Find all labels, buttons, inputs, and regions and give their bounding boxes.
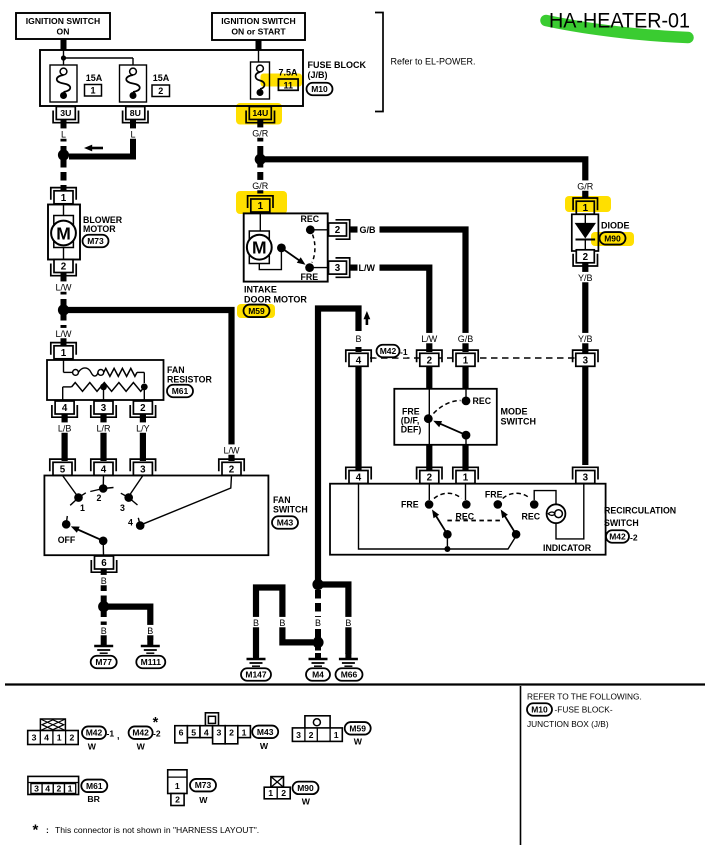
svg-text:Y/B: Y/B xyxy=(578,273,593,283)
connector face M42 bowtie xyxy=(40,719,65,731)
wire L/W: blower motor pin 2 down to junction and fan resistor pin 1 xyxy=(61,273,67,345)
wire label B above M42 row xyxy=(354,333,363,344)
svg-text:RECIRCULATION: RECIRCULATION xyxy=(604,506,676,516)
fan switch pin 2 connector xyxy=(219,459,244,475)
wire label L/W at intake pin 3 xyxy=(359,263,376,273)
wire label L/B xyxy=(55,422,75,433)
svg-text:M43: M43 xyxy=(257,727,274,737)
recirculation switch left unit FRE contact xyxy=(425,484,434,509)
svg-text:L/W: L/W xyxy=(223,445,240,455)
svg-text:FAN: FAN xyxy=(273,495,291,505)
svg-text:B: B xyxy=(101,626,107,636)
wire label B on M147 leg xyxy=(252,617,261,628)
svg-text:2: 2 xyxy=(158,86,163,96)
recirculation switch left unit dashed throw arc xyxy=(434,493,462,498)
svg-text:DEF): DEF) xyxy=(401,425,422,435)
blower motor M73 body xyxy=(48,205,80,260)
svg-text:-2: -2 xyxy=(153,729,161,739)
wire: fuse block internal feed to fuse 1 and fuse 2 xyxy=(61,50,133,65)
svg-text:5: 5 xyxy=(191,727,196,737)
svg-text:SWITCH: SWITCH xyxy=(501,417,537,427)
svg-text:1: 1 xyxy=(90,86,95,96)
fan resistor M61 box xyxy=(47,360,164,400)
svg-text:M147: M147 xyxy=(245,669,267,679)
connector face M90 cells 1 2 xyxy=(264,787,290,799)
svg-text:8U: 8U xyxy=(130,108,141,118)
mode switch common contact and wiper arrow xyxy=(433,421,470,445)
svg-text:3: 3 xyxy=(101,403,107,414)
svg-text:W: W xyxy=(199,795,208,805)
svg-text:MOTOR: MOTOR xyxy=(83,224,116,234)
svg-text:1: 1 xyxy=(80,503,85,513)
svg-text:2: 2 xyxy=(583,252,589,263)
svg-text:2: 2 xyxy=(427,473,433,484)
wire label Y/B above M42 row xyxy=(575,333,595,344)
wire label L/W above M42 row xyxy=(419,333,439,344)
svg-text:M: M xyxy=(56,224,71,244)
wire: ignition switch ON to fuse block xyxy=(61,39,67,50)
svg-text:G/R: G/R xyxy=(252,181,269,191)
wire label B above ground M77 xyxy=(99,625,108,636)
junction node top of ground group xyxy=(312,579,323,590)
svg-text:2: 2 xyxy=(69,733,74,743)
svg-text:1: 1 xyxy=(334,730,339,740)
svg-text:2: 2 xyxy=(140,403,146,414)
svg-text:SWITCH: SWITCH xyxy=(604,518,639,528)
recirculation switch pin 3 connector xyxy=(573,467,598,483)
svg-text:1: 1 xyxy=(175,781,180,791)
wire B: junction right to ground M111 xyxy=(106,607,150,640)
M42-1 connector pin 2 xyxy=(417,350,442,366)
recirculation switch pin 4 internal rail xyxy=(359,484,517,552)
svg-text:M43: M43 xyxy=(277,517,294,527)
fuse block (J/B) outline xyxy=(40,50,303,106)
connector 8U xyxy=(123,107,148,123)
svg-text:REC: REC xyxy=(473,396,492,406)
svg-text:M10: M10 xyxy=(531,704,548,714)
fan resistor internal circuit xyxy=(63,360,148,400)
svg-text:IGNITION SWITCH: IGNITION SWITCH xyxy=(26,16,100,26)
intake door motor body xyxy=(244,213,328,281)
label FRE right unit xyxy=(485,490,503,500)
yellow highlight on M59 oval xyxy=(237,304,275,318)
label FRE left unit xyxy=(401,500,419,510)
svg-text:B: B xyxy=(315,618,321,628)
svg-text:M73: M73 xyxy=(87,236,104,246)
wire label G/B above M42 row xyxy=(456,333,476,344)
vertical divider of reference panel xyxy=(520,686,522,845)
svg-text:1: 1 xyxy=(463,355,469,366)
wire L/R: fan resistor pin 3 to fan switch pin 4 xyxy=(100,415,106,462)
label REC in mode switch xyxy=(473,396,492,406)
svg-text:3: 3 xyxy=(34,783,39,793)
svg-text:JUNCTION BOX (J/B): JUNCTION BOX (J/B) xyxy=(527,719,609,729)
label INDICATOR xyxy=(543,543,592,553)
diode pin 2 connector xyxy=(573,250,597,266)
reference M73 oval xyxy=(83,235,109,248)
svg-text:FAN: FAN xyxy=(167,365,185,375)
svg-text:W: W xyxy=(302,797,311,807)
label FRE in intake door motor xyxy=(301,272,319,282)
svg-text:4: 4 xyxy=(62,403,68,414)
svg-text:3: 3 xyxy=(335,263,341,274)
reference M4 oval xyxy=(306,668,330,681)
wire: fuse block internal feed to fuse 11 xyxy=(258,50,260,62)
svg-text:2: 2 xyxy=(61,262,67,273)
separator rule above connector legend xyxy=(5,683,705,685)
svg-text:M59: M59 xyxy=(349,723,366,733)
footnote harness layout xyxy=(33,822,260,839)
label REC left unit xyxy=(456,512,475,522)
mode switch box xyxy=(394,389,497,445)
wire L: connector 3U down to junction and blower motor pin 1 xyxy=(61,120,67,192)
svg-text:,: , xyxy=(117,731,120,741)
svg-text:M42: M42 xyxy=(132,728,149,738)
svg-text:M90: M90 xyxy=(297,783,314,793)
wire B: M42-1 pin 4 down to recirculation switch xyxy=(355,367,361,472)
svg-text:-2: -2 xyxy=(630,533,638,543)
lower junction node xyxy=(312,637,323,648)
label DIODE xyxy=(601,221,630,231)
recirculation switch left unit common and wiper arrow xyxy=(432,510,452,547)
intake door motor common contact and wiper arrow xyxy=(277,244,306,265)
yellow highlight on fuse 11 label xyxy=(261,74,303,87)
wire L: connector 8U down, left to junction xyxy=(69,120,133,157)
yellow highlight on diode pin 1 xyxy=(565,196,611,212)
title HA-HEATER-01 xyxy=(549,9,690,33)
ground M77 xyxy=(94,640,113,656)
reference M59 oval in legend xyxy=(345,722,371,735)
connector face M42 cells 3 4 1 2 xyxy=(28,731,78,745)
connector face M61 cells 3 4 2 1 xyxy=(28,776,79,794)
yellow highlight on M90 oval xyxy=(591,232,634,246)
wire label B on M4 line xyxy=(314,617,323,628)
connector 14U xyxy=(246,107,274,123)
svg-text:1: 1 xyxy=(242,727,247,737)
svg-text:4: 4 xyxy=(128,518,133,528)
svg-text:M42: M42 xyxy=(609,531,626,541)
svg-text:B: B xyxy=(345,618,351,628)
yellow highlight on intake door motor pin 1 xyxy=(236,191,287,214)
reference M77 oval xyxy=(91,656,117,669)
fan switch pin 6 connector xyxy=(91,556,116,572)
svg-text:M66: M66 xyxy=(341,669,358,679)
junction node on L wire xyxy=(58,149,69,160)
svg-text:B: B xyxy=(147,626,153,636)
svg-text:FRE: FRE xyxy=(401,500,419,510)
svg-text:2: 2 xyxy=(229,464,235,475)
svg-text:-FUSE BLOCK-: -FUSE BLOCK- xyxy=(555,705,613,715)
junction node on B wire xyxy=(98,601,109,612)
reference M147 oval xyxy=(241,668,271,681)
svg-text:W: W xyxy=(137,742,146,752)
wire G/R: connector 14U down to junction and intake door motor pin 1 xyxy=(257,120,263,198)
svg-text:4: 4 xyxy=(356,355,362,366)
wire L/B: fan resistor pin 4 to fan switch pin 5 xyxy=(61,415,67,462)
ground M66 xyxy=(339,653,358,669)
svg-text:3: 3 xyxy=(32,733,37,743)
diode M90 body xyxy=(572,214,599,251)
recirculation switch pin 4 connector xyxy=(346,467,371,483)
svg-text:REC: REC xyxy=(522,512,541,522)
svg-text:3: 3 xyxy=(120,503,125,513)
reference M66 oval xyxy=(336,668,363,681)
svg-text:1: 1 xyxy=(61,193,67,204)
reference M59 oval xyxy=(244,305,270,318)
svg-text:BR: BR xyxy=(87,794,100,804)
M42-1 connector pin 3 xyxy=(573,350,598,366)
svg-text:4: 4 xyxy=(204,727,209,737)
wire label L/W above fan switch pin 2 xyxy=(222,444,242,455)
reference M61 oval in legend xyxy=(81,780,107,793)
svg-text:1: 1 xyxy=(57,733,62,743)
fuse 1 15A xyxy=(50,65,103,102)
svg-text:FUSE BLOCK: FUSE BLOCK xyxy=(308,60,367,70)
svg-text:L/B: L/B xyxy=(58,423,72,433)
svg-text:B: B xyxy=(355,334,361,344)
indicator lamp circuit xyxy=(534,484,584,539)
fan switch common contact and wiper arrow xyxy=(71,526,108,555)
svg-text:3: 3 xyxy=(140,464,146,475)
svg-text:1: 1 xyxy=(61,348,67,359)
fan switch pin 4 connector xyxy=(91,459,116,475)
wire B: fan switch pin 6 down to junction and ground M77 xyxy=(101,570,107,641)
svg-text:M42: M42 xyxy=(380,346,397,356)
diode pin 1 connector xyxy=(573,198,597,214)
wire label B below fan switch xyxy=(99,575,108,586)
svg-text:W: W xyxy=(260,741,269,751)
svg-text:INDICATOR: INDICATOR xyxy=(543,543,592,553)
connector face M59 cells 3 2 1 xyxy=(292,728,342,742)
svg-text:L/W: L/W xyxy=(55,329,72,339)
recirculation switch right unit common and wiper arrow xyxy=(501,510,521,539)
svg-text:REC: REC xyxy=(301,214,320,224)
wire label G/R above intake door motor xyxy=(250,180,270,191)
wire L/W: intake pin 3 to mode switch xyxy=(351,268,430,352)
svg-text:*: * xyxy=(33,822,39,839)
svg-text:-1: -1 xyxy=(400,347,408,357)
svg-text:M: M xyxy=(252,238,267,258)
wire label L/R xyxy=(94,422,114,433)
svg-text:L: L xyxy=(130,129,135,139)
intake door motor pin 1 connector xyxy=(248,196,273,212)
svg-text:2: 2 xyxy=(175,795,180,805)
reference M43 oval in legend xyxy=(252,726,278,739)
svg-text:INTAKE: INTAKE xyxy=(244,285,277,295)
svg-text:1: 1 xyxy=(268,788,273,798)
svg-text:FRE: FRE xyxy=(301,272,319,282)
svg-text:B: B xyxy=(279,618,285,628)
wire label L under 8U xyxy=(129,128,138,139)
label REC in intake door motor xyxy=(301,214,320,224)
wire label B on M66 leg xyxy=(344,617,353,628)
blower motor pin 2 connector xyxy=(51,260,76,276)
svg-text:(J/B): (J/B) xyxy=(308,70,328,80)
svg-text:M111: M111 xyxy=(141,657,162,667)
svg-text:M4: M4 xyxy=(312,669,324,679)
svg-text:M61: M61 xyxy=(172,386,189,396)
fuse 11 7.5A xyxy=(251,62,299,99)
recirculation switch right unit REC contact xyxy=(530,500,539,509)
svg-text:6: 6 xyxy=(179,727,184,737)
svg-text:M73: M73 xyxy=(195,780,212,790)
svg-text:M61: M61 xyxy=(86,781,103,791)
recirculation switch M42-2 box xyxy=(330,484,606,555)
svg-text:RESISTOR: RESISTOR xyxy=(167,375,212,385)
svg-text:DIODE: DIODE xyxy=(601,221,630,231)
reference M90 oval xyxy=(600,232,626,245)
wire label L/W below blower xyxy=(54,281,74,292)
wire label L under 3U xyxy=(59,128,68,139)
reference M111 oval xyxy=(136,656,165,669)
svg-text:4: 4 xyxy=(356,473,362,484)
svg-text:G/R: G/R xyxy=(577,181,594,191)
reference M43 oval xyxy=(272,516,298,529)
svg-text:L/R: L/R xyxy=(96,423,111,433)
fan resistor pin 4 connector xyxy=(52,401,77,417)
svg-text:L/Y: L/Y xyxy=(136,423,150,433)
svg-text:3: 3 xyxy=(583,473,589,484)
svg-text:ON or START: ON or START xyxy=(231,27,286,37)
wire Y/B: diode pin 2 down to recirculation switch pin 3 xyxy=(582,263,588,465)
connector face M43 keyway box xyxy=(205,713,218,726)
svg-text:Y/B: Y/B xyxy=(578,334,593,344)
svg-text:2: 2 xyxy=(97,493,102,503)
svg-text:1: 1 xyxy=(463,473,469,484)
wire: mode switch to recirculation switch pin 2 xyxy=(426,445,432,472)
fan switch contact 2 xyxy=(90,476,113,504)
wire G/B: intake pin 2 to mode switch xyxy=(351,230,466,353)
fan resistor pin 1 connector xyxy=(51,343,76,359)
reference M42-2 oval in legend with asterisk xyxy=(129,715,161,739)
ignition switch ON or START box xyxy=(212,13,305,40)
svg-text:W: W xyxy=(88,742,97,752)
labels RECIRCULATION SWITCH xyxy=(604,506,676,529)
recirculation switch right unit dashed throw arc xyxy=(503,493,530,498)
mode switch L/W conductor through box xyxy=(428,389,430,445)
svg-text:MODE: MODE xyxy=(501,407,528,417)
reference M90 oval in legend xyxy=(293,782,319,795)
wire label L/W above fan resistor xyxy=(54,328,74,339)
svg-text:L: L xyxy=(61,129,66,139)
intake door motor dashed throw arc xyxy=(312,235,315,263)
wire label G/R under 14U xyxy=(250,127,270,138)
fan resistor pin 2 connector xyxy=(130,401,155,417)
svg-text:G/R: G/R xyxy=(252,128,269,138)
svg-text:2: 2 xyxy=(281,788,286,798)
labels FAN SWITCH xyxy=(273,495,308,515)
wire label G/B at intake pin 2 xyxy=(360,225,377,235)
svg-text:ON: ON xyxy=(57,27,70,37)
svg-text:2: 2 xyxy=(309,730,314,740)
svg-text:IGNITION SWITCH: IGNITION SWITCH xyxy=(221,16,295,26)
wire G/B: M42-1 pin 1 down to mode switch xyxy=(462,367,468,390)
wire label G/R above diode xyxy=(575,180,595,191)
svg-text:B: B xyxy=(101,576,107,586)
svg-text:OFF: OFF xyxy=(58,535,76,545)
connector face M59 top box with circle xyxy=(305,716,330,729)
yellow highlight on connector 14U xyxy=(236,103,282,125)
labels FAN RESISTOR xyxy=(167,365,212,385)
recirculation switch right unit FRE contact xyxy=(494,500,503,509)
svg-text:3: 3 xyxy=(216,727,221,737)
fan switch pin 3 connector xyxy=(130,459,155,475)
svg-text:-1: -1 xyxy=(107,729,115,739)
svg-text:L/W: L/W xyxy=(421,334,438,344)
mode switch FRE contact xyxy=(424,414,433,423)
reference panel text REFER TO THE FOLLOWING xyxy=(527,692,642,702)
reference M61 oval xyxy=(167,385,193,398)
fan switch contact 4 xyxy=(128,476,231,530)
svg-text:REFER TO THE FOLLOWING.: REFER TO THE FOLLOWING. xyxy=(527,692,642,702)
wire L/W: M42-1 pin 2 down to mode switch xyxy=(426,367,432,390)
mode switch REC contact branch xyxy=(462,389,471,406)
svg-text:DOOR MOTOR: DOOR MOTOR xyxy=(244,295,307,305)
dashed in-line connector row M42-1 xyxy=(370,357,575,359)
color label W for M43 xyxy=(260,741,269,751)
intake door motor pin 2 connector xyxy=(329,220,350,239)
reference M42-2 oval xyxy=(606,530,638,543)
connector face M73 xyxy=(168,770,187,806)
fan switch M43 box xyxy=(44,476,268,556)
wire label Y/B below diode xyxy=(575,272,595,283)
wire G/R: main feed to diode xyxy=(263,159,585,198)
junction node on G/R wire xyxy=(255,154,266,165)
mode switch dashed throw arc xyxy=(434,401,461,414)
wire B dashed down to lower junction and ground M4 xyxy=(315,590,321,657)
wire B bridge to ground M147 xyxy=(256,588,313,658)
wire L/W: junction across to fan switch pin 2 xyxy=(66,310,232,461)
svg-text:Refer to EL-POWER.: Refer to EL-POWER. xyxy=(391,57,476,67)
wire B: bridge from grounds up over to recirculation switch pin 4 xyxy=(318,309,359,582)
svg-text:2: 2 xyxy=(56,783,61,793)
svg-text:G/B: G/B xyxy=(458,334,474,344)
intake door motor REC contact xyxy=(306,225,329,234)
reference M42-1 oval xyxy=(375,345,408,358)
fan switch contact 3 xyxy=(120,476,143,514)
svg-text:15A: 15A xyxy=(86,73,103,83)
reference panel M10 fuse block xyxy=(527,703,613,716)
svg-text:FRE: FRE xyxy=(485,490,503,500)
ignition switch ON box xyxy=(16,13,110,39)
svg-text:This connector is not shown in: This connector is not shown in "HARNESS … xyxy=(55,825,259,835)
svg-text:L/W: L/W xyxy=(55,282,72,292)
M42-1 connector pin 4 xyxy=(346,350,371,366)
wire label L/Y xyxy=(133,422,153,433)
connector 3U xyxy=(53,107,78,123)
recirculation switch pin 2 connector xyxy=(417,467,442,483)
M42-1 connector pin 1 xyxy=(453,350,478,366)
svg-text:4: 4 xyxy=(44,733,49,743)
labels MODE SWITCH xyxy=(501,407,537,427)
svg-text:2: 2 xyxy=(427,355,433,366)
svg-text:G/B: G/B xyxy=(360,225,377,235)
color labels W W for M42 xyxy=(88,742,146,752)
svg-text:2: 2 xyxy=(335,225,341,236)
svg-text::: : xyxy=(46,825,49,835)
wire B: branch right to ground M66 xyxy=(320,585,348,655)
svg-text:M10: M10 xyxy=(311,84,328,94)
svg-text:5: 5 xyxy=(60,464,66,475)
reference M73 oval in legend xyxy=(190,779,216,792)
svg-text:SWITCH: SWITCH xyxy=(273,505,308,515)
svg-text:1: 1 xyxy=(68,783,73,793)
wire: ignition switch ON or START to fuse block xyxy=(256,40,262,50)
svg-text:15A: 15A xyxy=(153,73,170,83)
ground M147 xyxy=(247,653,266,669)
fan switch contact 1 xyxy=(63,476,86,514)
blower motor pin 1 connector xyxy=(51,188,76,204)
